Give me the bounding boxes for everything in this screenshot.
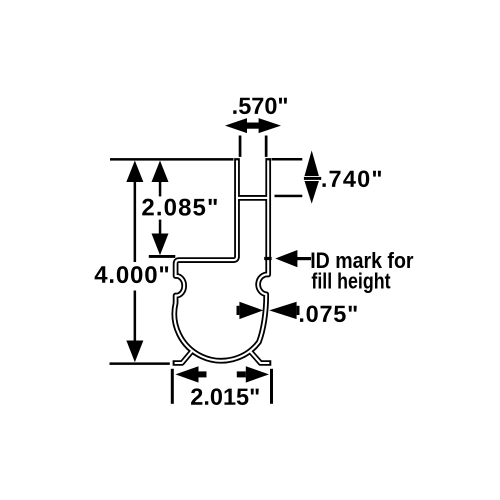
svg-text:2.085": 2.085" [141, 194, 219, 221]
4.000 bottom arrowhead [126, 341, 143, 363]
2.015 left arrowhead [175, 366, 198, 382]
step tick line (2.085 lower reference) [149, 255, 176, 258]
top-left reference line [110, 158, 234, 161]
2.015 left extension line [171, 369, 174, 404]
svg-text:4.000": 4.000" [94, 262, 170, 289]
svg-text:2.015": 2.015" [190, 384, 260, 410]
2.085 top arrowhead [152, 161, 169, 183]
profile outline (extrusion wall strip, black) [174, 158, 268, 361]
.740 middle tick [304, 177, 321, 180]
.570 extension line left [239, 136, 242, 157]
2.085 dimension line lower piece [159, 220, 162, 234]
mid-right reference line (web level) [275, 195, 303, 198]
left foot fin [173, 351, 193, 364]
right foot fin [250, 351, 272, 364]
.075 left arrowhead [239, 302, 263, 319]
.570 right arrowhead [259, 118, 281, 133]
bottom-left reference line [110, 362, 170, 365]
.740 bottom arrowhead [305, 181, 319, 204]
svg-text:.075": .075" [298, 301, 359, 327]
2.015 left arrow tail [198, 371, 207, 377]
profile web (horizontal wall inside channel) [237, 195, 268, 201]
4.000 top arrowhead [126, 161, 143, 183]
.740 top arrowhead [305, 150, 319, 176]
.570 extension line right [265, 136, 268, 157]
2.015 right extension line [270, 369, 273, 404]
.075 right tick [297, 306, 300, 315]
2.015 right arrowhead [246, 366, 269, 382]
ID mark arrow tail [297, 257, 312, 260]
.570 left arrowhead [225, 118, 247, 133]
svg-text:.570": .570" [232, 93, 289, 119]
.570 middle bar [246, 123, 260, 129]
ID mark arrowhead [275, 250, 297, 267]
.075 left tick [237, 306, 240, 315]
svg-text:.740": .740" [321, 166, 384, 192]
svg-text:fill height: fill height [311, 270, 390, 294]
2.085 bottom arrowhead [152, 234, 169, 256]
4.000 dimension line lower piece [134, 291, 137, 342]
4.000 dimension line upper piece [134, 180, 137, 262]
profile hollow core (white) [174, 160, 269, 363]
ID mark notch on right wall [264, 257, 271, 260]
top-right reference line [272, 158, 303, 161]
.075 right arrowhead [269, 302, 296, 319]
2.085 dimension line upper piece [159, 180, 162, 196]
2.015 right arrow tail [237, 371, 246, 377]
